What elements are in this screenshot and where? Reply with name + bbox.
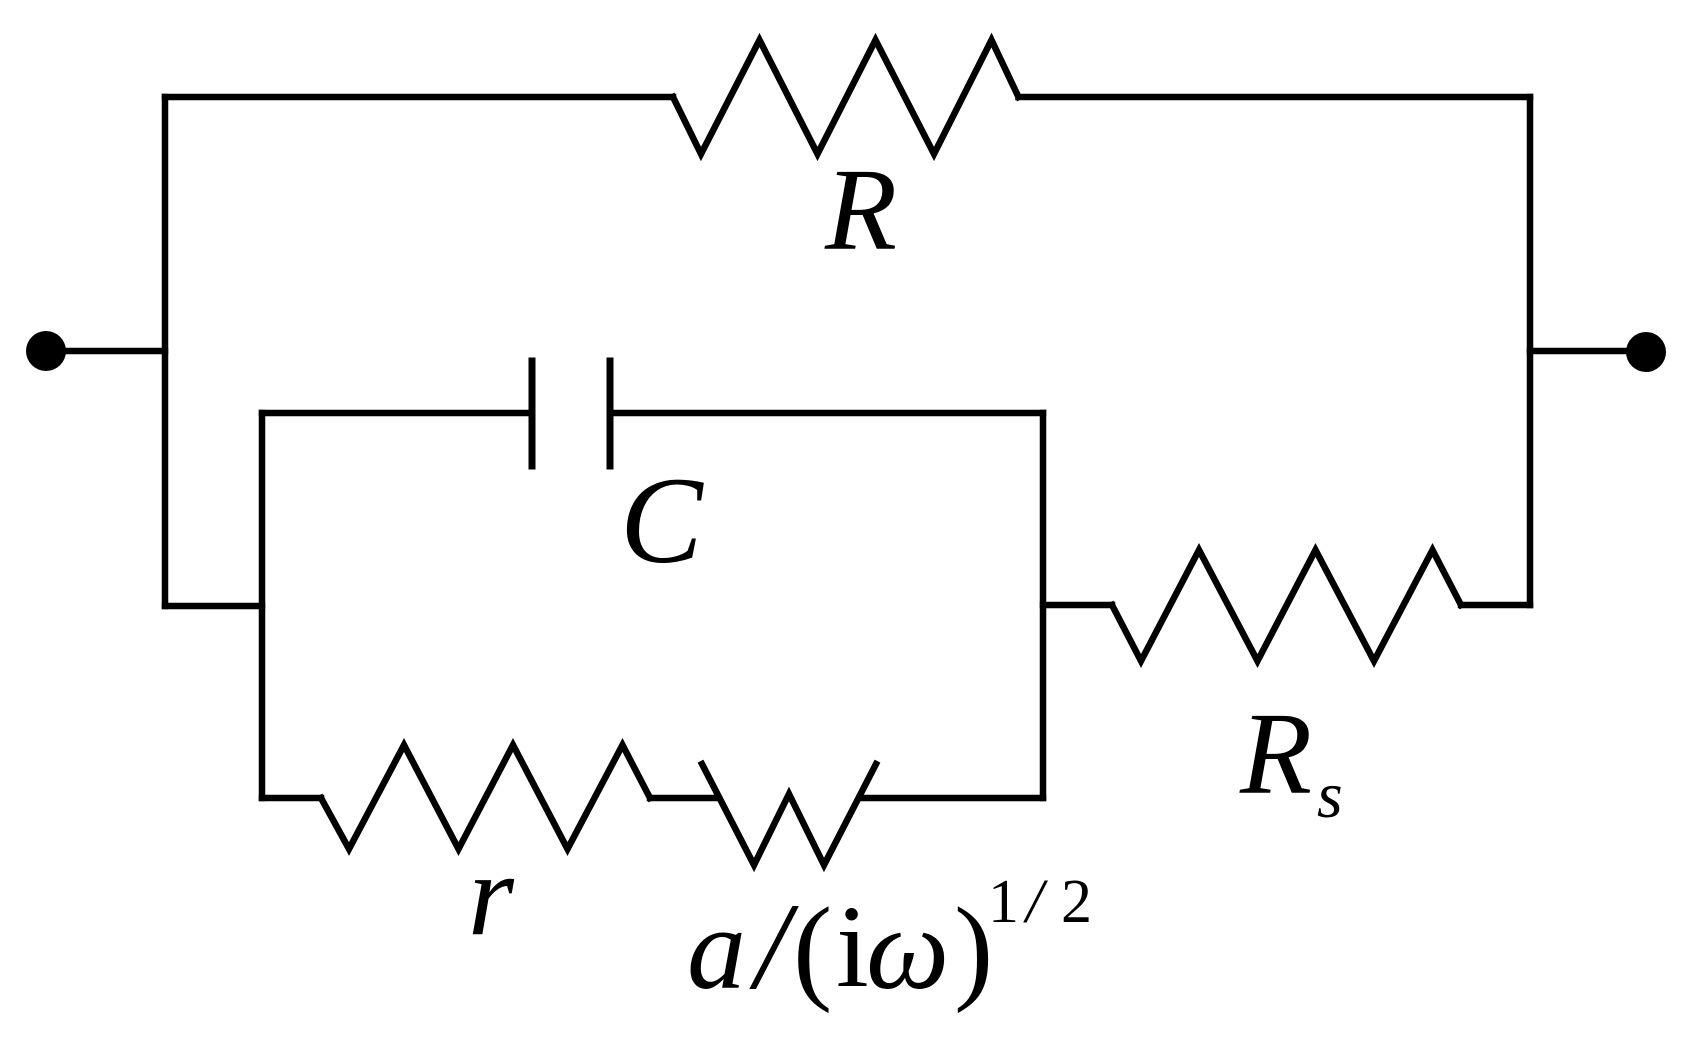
inner bottom wire right segment	[862, 795, 1043, 802]
bottom-left wire	[165, 603, 262, 610]
inner top wire to capacitor	[262, 410, 532, 417]
capacitor C left plate	[529, 361, 536, 466]
svg-text:a: a	[687, 883, 746, 1014]
wire Rs to right vertical	[1461, 602, 1530, 609]
svg-text:r: r	[468, 829, 515, 960]
bottom-right wire to Rs	[1043, 602, 1112, 609]
inner box right vertical wire	[1040, 413, 1047, 798]
right terminal wire	[1530, 348, 1646, 355]
left terminal node dot	[26, 331, 66, 371]
top wire right segment	[1019, 94, 1531, 101]
svg-text:R: R	[1239, 688, 1312, 819]
resistor Rs	[1112, 550, 1461, 661]
capacitor C right plate	[607, 361, 614, 466]
resistor r	[321, 745, 650, 849]
inner top wire from capacitor	[610, 410, 1043, 417]
outer left vertical wire	[162, 97, 169, 606]
top wire left segment	[165, 94, 673, 101]
svg-text:(: (	[793, 883, 832, 1014]
svg-text:C: C	[620, 452, 704, 589]
svg-text:1: 1	[988, 868, 1019, 936]
svg-text:s: s	[1317, 759, 1343, 832]
svg-text:i: i	[836, 881, 869, 1012]
inner bottom wire left segment	[262, 795, 321, 802]
svg-text:2: 2	[1061, 868, 1092, 936]
resistor R	[673, 40, 1019, 154]
Warburg element a/(iw)^1/2	[702, 764, 876, 865]
inner bottom wire middle segment	[650, 795, 716, 802]
left terminal wire	[46, 348, 165, 355]
outer right vertical wire	[1527, 97, 1534, 605]
svg-text:R: R	[824, 144, 897, 275]
svg-text:ω: ω	[866, 883, 949, 1014]
right terminal node dot	[1626, 332, 1666, 372]
inner box left vertical wire	[259, 413, 266, 798]
